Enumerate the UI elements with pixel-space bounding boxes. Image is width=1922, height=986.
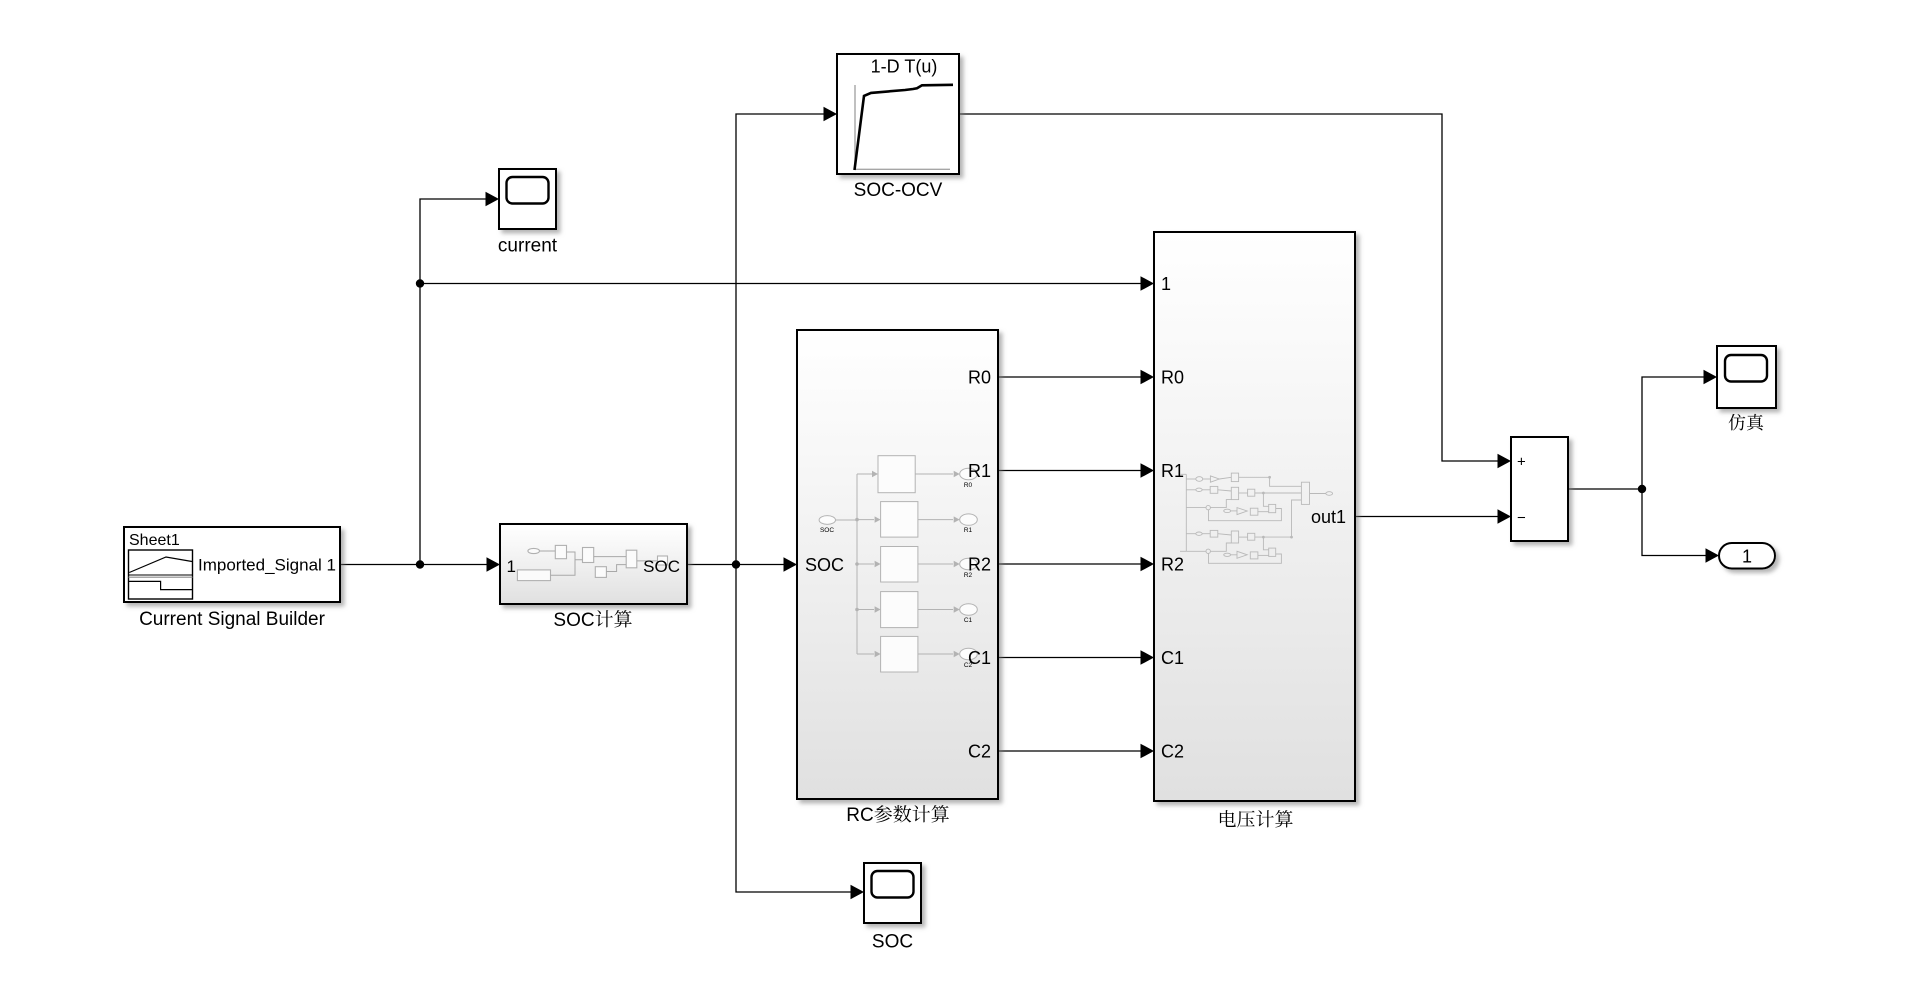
- svg-text:R1: R1: [1161, 461, 1184, 481]
- arrows RC to voltage: [1141, 370, 1155, 385]
- wire: voltage-calc out1 to sum - input: [1355, 516, 1498, 518]
- wire: branch right at y=283.5 to voltage-calc input 1: [420, 283, 1141, 285]
- svg-text:Current Signal Builder: Current Signal Builder: [139, 609, 326, 630]
- wire: RC C1 to voltage C1: [998, 657, 1141, 659]
- svg-text:C2: C2: [968, 742, 991, 762]
- svg-text:C1: C1: [964, 617, 973, 624]
- svg-text:−: −: [1517, 510, 1526, 527]
- arrow into current scope: [486, 192, 500, 207]
- node: branch to voltage input 1: [416, 279, 424, 287]
- block: current scope: [498, 169, 558, 257]
- arrow into SOC-calc: [487, 557, 501, 572]
- svg-text:SOC: SOC: [872, 932, 913, 953]
- svg-text:R0: R0: [964, 482, 973, 489]
- svg-text:C1: C1: [1161, 648, 1184, 668]
- svg-text:R1: R1: [964, 527, 973, 534]
- svg-text:R2: R2: [1161, 555, 1184, 575]
- svg-text:out1: out1: [1311, 507, 1346, 527]
- svg-text:R0: R0: [968, 368, 991, 388]
- svg-text:SOC: SOC: [820, 527, 834, 534]
- arrow into sum +: [1498, 454, 1512, 469]
- wire: Signal Builder output to SOC-calc input: [340, 564, 487, 566]
- wire: branch up from (420,564.5) to current scope: [420, 199, 486, 565]
- svg-text:R0: R0: [1161, 368, 1184, 388]
- svg-text:1: 1: [507, 557, 516, 576]
- svg-text:Imported_Signal 1: Imported_Signal 1: [198, 556, 336, 575]
- arrowheads: [486, 107, 1720, 900]
- arrow into sim scope: [1704, 370, 1718, 385]
- block: RC params calc subsystem: [797, 330, 998, 826]
- block: sum: [1511, 437, 1568, 541]
- svg-text:C2: C2: [1161, 742, 1184, 762]
- node: sum output branch: [1638, 485, 1646, 493]
- svg-text:+: +: [1517, 454, 1526, 471]
- arrow into RC-calc SOC: [784, 557, 798, 572]
- arrow into sum -: [1498, 509, 1512, 524]
- label 电压计算: [1220, 810, 1293, 828]
- svg-text:SOC-OCV: SOC-OCV: [854, 180, 943, 201]
- svg-text:SOC: SOC: [553, 610, 594, 631]
- block: SOC calc subsystem: [500, 524, 687, 631]
- node: branch to current scope: [416, 560, 424, 568]
- wire: RC R2 to voltage R2: [998, 563, 1141, 565]
- wire: RC R1 to voltage R1: [998, 470, 1141, 472]
- block: SOC scope: [864, 863, 921, 953]
- mini preview of RC calc contents: [819, 456, 977, 672]
- wire: RC C2 to voltage C2: [998, 750, 1141, 752]
- svg-text:C1: C1: [968, 648, 991, 668]
- arrow into SOC-OCV: [824, 107, 838, 122]
- svg-text:R2: R2: [968, 555, 991, 575]
- wire: SOC-calc output to RC-calc input: [687, 564, 784, 566]
- svg-text:1-D T(u): 1-D T(u): [871, 57, 938, 77]
- arrow into outport 1: [1706, 548, 1720, 563]
- svg-text:1: 1: [1742, 547, 1752, 567]
- arrow into SOC scope: [851, 885, 865, 900]
- wire: vertical bus x=736 from SOC-OCV to SOC scope: [736, 114, 851, 892]
- svg-text:1: 1: [1161, 274, 1171, 294]
- block: Current Signal Builder: [124, 527, 340, 630]
- svg-text:SOC: SOC: [805, 555, 844, 575]
- CJK text 参数计算 of label RC参数计算: [874, 805, 949, 822]
- mini preview of SOC calc contents: [517, 545, 667, 580]
- label 仿真: [1729, 414, 1764, 431]
- wire: SOC-OCV output to sum + input: [959, 114, 1498, 461]
- wire: RC R0 to voltage R0: [998, 376, 1141, 378]
- block: voltage calc subsystem: [1154, 232, 1355, 828]
- mini preview of voltage calc contents: [1180, 473, 1333, 563]
- svg-text:R1: R1: [968, 461, 991, 481]
- svg-text:SOC: SOC: [643, 557, 680, 576]
- wire: sum output branch to scope and outport: [1568, 377, 1704, 489]
- block: outport 1: [1719, 543, 1775, 569]
- svg-text:current: current: [498, 236, 558, 257]
- arrow into voltage-calc input 1: [1141, 276, 1155, 291]
- CJK text 计算 of label SOC计算: [595, 610, 631, 627]
- block: SOC-OCV lookup table: [837, 54, 959, 201]
- block: sim scope (fangzhen): [1717, 346, 1776, 430]
- svg-text:Sheet1: Sheet1: [129, 532, 180, 549]
- svg-text:RC: RC: [846, 805, 873, 826]
- node: SOC signal branch: [732, 560, 740, 568]
- junction dots: [416, 279, 1646, 568]
